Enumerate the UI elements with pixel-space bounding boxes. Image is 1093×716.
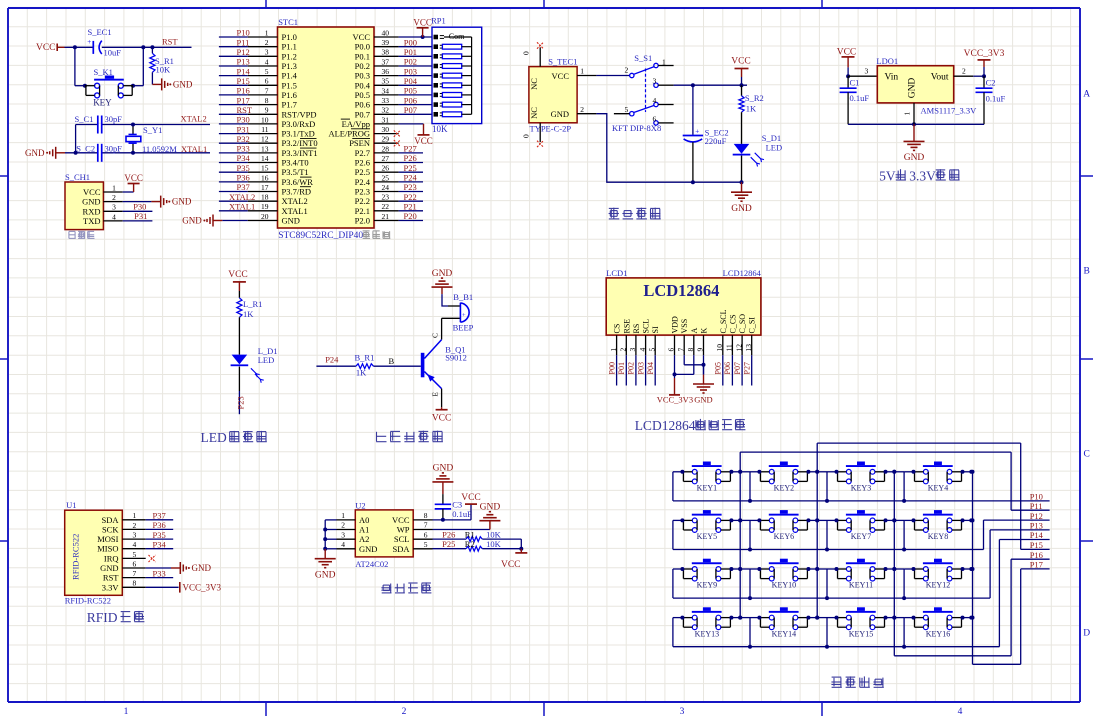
svg-text:S_CH1: S_CH1 <box>65 172 90 182</box>
svg-text:P20: P20 <box>404 211 417 221</box>
svg-text:P30: P30 <box>237 115 250 125</box>
svg-text:LED: LED <box>258 355 275 365</box>
svg-text:32: 32 <box>382 106 390 115</box>
svg-text:P2.3: P2.3 <box>355 187 370 197</box>
svg-text:P16: P16 <box>237 86 250 96</box>
svg-text:30pF: 30pF <box>105 114 123 124</box>
svg-text:6: 6 <box>653 114 657 123</box>
svg-text:P22: P22 <box>404 192 417 202</box>
svg-text:LDO1: LDO1 <box>876 56 898 66</box>
svg-text:10: 10 <box>261 115 269 124</box>
svg-text:P07: P07 <box>404 105 417 115</box>
svg-text:RSE: RSE <box>622 319 631 334</box>
svg-text:KEY5: KEY5 <box>697 532 717 541</box>
svg-text:3: 3 <box>653 76 657 85</box>
svg-text:GND: GND <box>173 80 193 90</box>
svg-text:1: 1 <box>133 511 137 520</box>
svg-text:KEY11: KEY11 <box>849 581 873 590</box>
svg-text:6: 6 <box>265 77 269 86</box>
svg-text:L_R1: L_R1 <box>243 299 262 309</box>
svg-text:P05: P05 <box>714 362 723 374</box>
svg-text:P35: P35 <box>153 530 166 540</box>
svg-text:+: + <box>695 127 699 135</box>
svg-text:C2: C2 <box>986 78 996 88</box>
svg-text:P14: P14 <box>1030 530 1044 540</box>
svg-text:VCC: VCC <box>228 270 248 280</box>
svg-text:3: 3 <box>865 66 869 75</box>
svg-text:STC89C52RC_DIP40: STC89C52RC_DIP40 <box>278 231 363 241</box>
svg-text:28: 28 <box>382 144 390 153</box>
svg-text:13: 13 <box>261 144 269 153</box>
svg-text:P12: P12 <box>1030 511 1043 521</box>
svg-text:P11: P11 <box>237 37 250 47</box>
svg-text:VCC: VCC <box>501 560 521 570</box>
svg-text:1: 1 <box>609 348 618 352</box>
svg-text:VCC: VCC <box>413 18 432 28</box>
svg-text:GND: GND <box>172 197 192 207</box>
svg-text:GND: GND <box>904 153 925 163</box>
svg-text:8: 8 <box>265 96 269 105</box>
svg-text:P2.1: P2.1 <box>355 206 370 216</box>
svg-text:25: 25 <box>382 173 390 182</box>
svg-text:S_R2: S_R2 <box>745 93 764 103</box>
svg-text:36: 36 <box>382 67 390 76</box>
svg-text:P1.1: P1.1 <box>282 42 297 52</box>
svg-text:P33: P33 <box>237 144 250 154</box>
svg-text:VCC: VCC <box>414 136 433 146</box>
svg-text:LED: LED <box>201 430 227 445</box>
svg-text:1K: 1K <box>356 368 367 378</box>
svg-text:0.1uF: 0.1uF <box>850 93 870 103</box>
svg-text:S_S1: S_S1 <box>634 53 652 63</box>
svg-text:30: 30 <box>382 125 390 134</box>
svg-text:P36: P36 <box>153 520 166 530</box>
svg-text:P1.0: P1.0 <box>282 32 297 42</box>
svg-text:C_SI: C_SI <box>748 317 757 334</box>
svg-text:ALE/PROG: ALE/PROG <box>328 129 370 139</box>
svg-text:C_CS: C_CS <box>728 314 737 333</box>
svg-text:RXD: RXD <box>83 206 101 216</box>
svg-text:RST/VPD: RST/VPD <box>282 109 317 119</box>
svg-text:P07: P07 <box>733 362 742 374</box>
svg-text:A: A <box>1083 90 1090 100</box>
svg-text:KEY12: KEY12 <box>926 581 950 590</box>
svg-text:P1.4: P1.4 <box>282 71 298 81</box>
svg-text:RP1: RP1 <box>431 16 446 26</box>
svg-text:GND: GND <box>315 570 336 580</box>
svg-text:P3.6/WR: P3.6/WR <box>282 177 314 187</box>
svg-text:8: 8 <box>686 348 695 352</box>
svg-text:KEY6: KEY6 <box>774 532 794 541</box>
svg-text:KEY3: KEY3 <box>851 484 871 493</box>
svg-text:7: 7 <box>424 521 428 530</box>
svg-text:VCC_3V3: VCC_3V3 <box>964 49 1005 59</box>
svg-text:R2: R2 <box>465 539 475 549</box>
svg-text:1: 1 <box>265 28 269 37</box>
svg-text:LCD1: LCD1 <box>606 268 627 278</box>
svg-text:P17: P17 <box>237 95 250 105</box>
svg-text:P24: P24 <box>404 173 418 183</box>
svg-text:K: K <box>700 328 709 334</box>
svg-text:P0.5: P0.5 <box>355 90 370 100</box>
svg-text:10: 10 <box>715 344 724 352</box>
svg-text:R1: R1 <box>465 529 475 539</box>
svg-text:SDA: SDA <box>101 515 119 525</box>
svg-text:TXD: TXD <box>83 216 100 226</box>
svg-text:0: 0 <box>522 51 531 55</box>
svg-text:3.3V: 3.3V <box>909 168 936 183</box>
svg-text:P03: P03 <box>404 66 417 76</box>
svg-text:XTAL2: XTAL2 <box>181 113 207 123</box>
svg-text:GND: GND <box>25 148 45 158</box>
svg-text:KEY16: KEY16 <box>926 629 950 638</box>
svg-text:P2.4: P2.4 <box>355 177 371 187</box>
svg-text:3: 3 <box>680 707 685 716</box>
svg-text:KEY: KEY <box>93 98 112 108</box>
svg-text:20: 20 <box>261 212 269 221</box>
svg-text:24: 24 <box>382 183 390 192</box>
svg-text:4: 4 <box>958 707 963 716</box>
svg-text:21: 21 <box>382 212 390 221</box>
svg-text:LCD12864: LCD12864 <box>723 268 762 278</box>
svg-text:SI: SI <box>651 326 660 333</box>
svg-text:VCC_3V3: VCC_3V3 <box>183 582 222 592</box>
svg-text:P0.2: P0.2 <box>355 61 370 71</box>
svg-text:5: 5 <box>424 540 428 549</box>
svg-text:RS: RS <box>632 324 641 334</box>
svg-text:P2.0: P2.0 <box>355 216 370 226</box>
svg-text:14: 14 <box>261 154 269 163</box>
svg-text:220uF: 220uF <box>705 136 727 146</box>
svg-text:5: 5 <box>625 105 629 114</box>
svg-text:2: 2 <box>112 193 116 202</box>
svg-text:IRQ: IRQ <box>104 553 119 563</box>
svg-text:1: 1 <box>112 183 116 192</box>
svg-text:34: 34 <box>382 86 390 95</box>
svg-text:STC1: STC1 <box>278 17 298 27</box>
svg-text:15: 15 <box>261 164 269 173</box>
svg-text:6: 6 <box>424 530 428 539</box>
svg-text:30pF: 30pF <box>105 143 123 153</box>
svg-text:A2: A2 <box>359 534 369 544</box>
svg-text:P12: P12 <box>237 47 250 57</box>
svg-text:5: 5 <box>133 550 137 559</box>
svg-text:P13: P13 <box>237 57 250 67</box>
svg-text:2: 2 <box>962 66 966 75</box>
svg-text:P0.7: P0.7 <box>355 109 370 119</box>
svg-text:P01: P01 <box>617 362 626 374</box>
svg-text:P24: P24 <box>325 355 339 365</box>
svg-text:XTAL1: XTAL1 <box>282 206 308 216</box>
svg-text:P0.1: P0.1 <box>355 51 370 61</box>
svg-text:5: 5 <box>265 67 269 76</box>
svg-text:GND: GND <box>182 216 202 226</box>
svg-text:NC: NC <box>529 107 539 119</box>
svg-text:KEY8: KEY8 <box>928 532 948 541</box>
svg-text:P06: P06 <box>404 95 417 105</box>
svg-text:XTAL2: XTAL2 <box>229 192 255 202</box>
svg-text:P06: P06 <box>723 362 732 374</box>
svg-text:GND: GND <box>694 395 712 405</box>
svg-text:0.1uF: 0.1uF <box>986 94 1006 104</box>
svg-text:8: 8 <box>133 579 137 588</box>
svg-text:C_SO: C_SO <box>738 314 747 334</box>
svg-text:3.3V: 3.3V <box>102 582 120 592</box>
svg-text:SCL: SCL <box>642 319 651 334</box>
svg-text:RFID-RC522: RFID-RC522 <box>71 534 81 580</box>
svg-text:P3.1/TxD: P3.1/TxD <box>282 129 315 139</box>
svg-text:2: 2 <box>341 521 345 530</box>
svg-text:10K: 10K <box>432 124 448 134</box>
svg-text:P25: P25 <box>442 539 455 549</box>
svg-text:MISO: MISO <box>97 544 118 554</box>
svg-text:EA/Vpp: EA/Vpp <box>342 119 370 129</box>
svg-text:U2: U2 <box>355 500 365 510</box>
svg-text:P37: P37 <box>237 182 250 192</box>
svg-text:LED: LED <box>766 142 783 152</box>
svg-text:E: E <box>431 392 440 397</box>
svg-text:PSEN: PSEN <box>349 138 370 148</box>
svg-text:P25: P25 <box>404 163 417 173</box>
svg-text:P32: P32 <box>237 134 250 144</box>
svg-text:Vin: Vin <box>885 73 899 83</box>
svg-text:P33: P33 <box>153 568 166 578</box>
svg-text:P1.7: P1.7 <box>282 100 297 110</box>
svg-text:P34: P34 <box>237 153 251 163</box>
svg-text:P00: P00 <box>404 37 417 47</box>
svg-text:3: 3 <box>628 348 637 352</box>
svg-text:S_C2: S_C2 <box>76 143 95 153</box>
svg-text:+: + <box>462 312 466 319</box>
svg-text:P15: P15 <box>237 76 250 86</box>
svg-text:B_B1: B_B1 <box>453 292 473 302</box>
svg-text:B: B <box>1084 267 1090 277</box>
svg-text:10uF: 10uF <box>104 47 122 57</box>
svg-text:GND: GND <box>908 78 918 99</box>
svg-text:VCC: VCC <box>731 57 751 67</box>
svg-text:SCL: SCL <box>394 534 410 544</box>
svg-text:4: 4 <box>653 96 657 105</box>
svg-text:P35: P35 <box>237 163 250 173</box>
svg-text:VDD: VDD <box>671 316 680 334</box>
svg-text:A1: A1 <box>359 525 369 535</box>
svg-text:2: 2 <box>619 348 628 352</box>
svg-text:16: 16 <box>261 173 269 182</box>
svg-text:19: 19 <box>261 202 269 211</box>
svg-text:P17: P17 <box>1030 560 1043 570</box>
svg-text:P16: P16 <box>1030 550 1043 560</box>
svg-text:S_C1: S_C1 <box>75 114 94 124</box>
svg-text:AT24C02: AT24C02 <box>355 559 388 569</box>
svg-text:A: A <box>690 328 699 334</box>
svg-text:P3.3/INT1: P3.3/INT1 <box>282 148 318 158</box>
svg-text:2: 2 <box>625 65 629 74</box>
svg-text:P1.3: P1.3 <box>282 61 297 71</box>
svg-text:GND: GND <box>359 544 377 554</box>
svg-text:SCK: SCK <box>102 524 119 534</box>
svg-text:2: 2 <box>133 521 137 530</box>
svg-text:P14: P14 <box>237 66 251 76</box>
svg-text:1K: 1K <box>746 104 757 114</box>
svg-text:3: 3 <box>265 48 269 57</box>
svg-text:10K: 10K <box>156 64 172 74</box>
svg-text:9: 9 <box>696 348 705 352</box>
svg-text:P02: P02 <box>404 57 417 67</box>
svg-text:VCC: VCC <box>36 43 56 53</box>
svg-text:1K: 1K <box>243 309 254 319</box>
svg-text:P27: P27 <box>404 144 417 154</box>
svg-text:VCC: VCC <box>83 187 101 197</box>
svg-text:5V: 5V <box>879 168 896 183</box>
svg-text:VCC: VCC <box>432 414 452 424</box>
svg-text:VCC_3V3: VCC_3V3 <box>657 395 693 405</box>
svg-text:C1: C1 <box>850 78 860 88</box>
svg-text:P0.4: P0.4 <box>355 80 371 90</box>
svg-text:VSS: VSS <box>680 319 689 334</box>
svg-text:2: 2 <box>580 105 584 114</box>
svg-text:0.1uF: 0.1uF <box>452 509 472 519</box>
svg-text:C: C <box>1084 450 1090 460</box>
svg-text:0: 0 <box>522 134 531 138</box>
svg-text:GND: GND <box>282 216 300 226</box>
svg-text:35: 35 <box>382 77 390 86</box>
svg-text:4: 4 <box>341 540 345 549</box>
svg-text:P3.0/RxD: P3.0/RxD <box>282 119 316 129</box>
svg-text:2: 2 <box>402 707 407 716</box>
svg-text:P11: P11 <box>1030 501 1043 511</box>
svg-text:C_SCL: C_SCL <box>719 309 728 333</box>
svg-text:KEY9: KEY9 <box>697 581 717 590</box>
svg-text:P34: P34 <box>153 539 167 549</box>
svg-text:P0.0: P0.0 <box>355 42 370 52</box>
svg-text:SDA: SDA <box>392 544 410 554</box>
svg-text:3: 3 <box>133 531 137 540</box>
svg-text:38: 38 <box>382 48 390 57</box>
svg-text:GND: GND <box>551 109 569 119</box>
svg-text:7: 7 <box>265 86 269 95</box>
svg-text:P23: P23 <box>404 182 417 192</box>
svg-text:P31: P31 <box>134 211 147 221</box>
svg-text:11: 11 <box>725 344 734 351</box>
svg-text:4: 4 <box>638 348 647 352</box>
svg-text:P3.4/T0: P3.4/T0 <box>282 158 309 168</box>
svg-text:A0: A0 <box>359 515 369 525</box>
svg-text:P21: P21 <box>404 202 417 212</box>
svg-text:U1: U1 <box>66 500 76 510</box>
svg-text:VCC: VCC <box>461 493 481 503</box>
svg-text:P36: P36 <box>237 173 250 183</box>
svg-text:KEY1: KEY1 <box>697 484 717 493</box>
svg-text:CS: CS <box>613 324 622 334</box>
svg-text:Vout: Vout <box>931 73 949 83</box>
svg-text:P05: P05 <box>404 86 417 96</box>
svg-text:KEY7: KEY7 <box>851 532 871 541</box>
svg-text:P03: P03 <box>636 362 645 374</box>
svg-text:S_EC1: S_EC1 <box>88 27 112 37</box>
svg-text:9: 9 <box>265 106 269 115</box>
svg-text:7: 7 <box>133 569 137 578</box>
svg-text:5: 5 <box>647 348 656 352</box>
svg-text:P1.2: P1.2 <box>282 51 297 61</box>
svg-text:23: 23 <box>382 193 390 202</box>
svg-text:VCC: VCC <box>353 32 371 42</box>
svg-text:RST: RST <box>237 105 253 115</box>
svg-text:S_TEC1: S_TEC1 <box>548 57 577 67</box>
svg-text:P0.3: P0.3 <box>355 71 370 81</box>
svg-text:B: B <box>389 356 395 366</box>
svg-text:S_Y1: S_Y1 <box>143 125 162 135</box>
svg-text:33: 33 <box>382 96 390 105</box>
svg-text:XTAL1: XTAL1 <box>229 202 255 212</box>
svg-text:GND: GND <box>82 197 100 207</box>
svg-text:VCC: VCC <box>552 71 570 81</box>
svg-text:Com: Com <box>449 32 465 41</box>
svg-text:39: 39 <box>382 38 390 47</box>
svg-text:XTAL1: XTAL1 <box>181 144 207 154</box>
svg-text:31: 31 <box>382 115 390 124</box>
svg-text:KEY14: KEY14 <box>772 629 796 638</box>
svg-text:RST: RST <box>162 36 178 46</box>
svg-text:GND: GND <box>432 269 453 279</box>
svg-text:P2.2: P2.2 <box>355 196 370 206</box>
svg-text:P3.2/INT0: P3.2/INT0 <box>282 138 318 148</box>
svg-text:4: 4 <box>265 57 269 66</box>
svg-text:18: 18 <box>261 193 269 202</box>
svg-text:2: 2 <box>265 38 269 47</box>
svg-text:P0.6: P0.6 <box>355 100 370 110</box>
svg-text:P26: P26 <box>442 529 455 539</box>
svg-text:11: 11 <box>261 125 268 134</box>
svg-text:VCC: VCC <box>392 515 410 525</box>
svg-text:3: 3 <box>341 530 345 539</box>
svg-text:XTAL2: XTAL2 <box>282 196 308 206</box>
svg-text:P23: P23 <box>235 396 245 409</box>
svg-text:P01: P01 <box>404 47 417 57</box>
svg-text:GND: GND <box>731 204 752 214</box>
svg-text:10K: 10K <box>486 529 502 539</box>
svg-text:GND: GND <box>433 464 454 474</box>
svg-text:TYPE-C-2P: TYPE-C-2P <box>530 124 572 134</box>
svg-text:P31: P31 <box>237 124 250 134</box>
svg-text:1: 1 <box>124 707 129 716</box>
svg-text:12: 12 <box>734 344 743 352</box>
svg-text:+: + <box>87 38 91 46</box>
svg-text:P15: P15 <box>1030 540 1043 550</box>
svg-text:S9012: S9012 <box>445 353 467 363</box>
svg-text:1: 1 <box>341 511 345 520</box>
svg-text:11.0592M: 11.0592M <box>142 144 177 154</box>
svg-text:KEY13: KEY13 <box>695 629 719 638</box>
svg-text:4: 4 <box>133 540 137 549</box>
svg-text:7: 7 <box>676 348 685 352</box>
svg-text:P26: P26 <box>404 153 417 163</box>
svg-text:1: 1 <box>903 112 912 116</box>
svg-text:40: 40 <box>382 28 390 37</box>
svg-text:LCD12864: LCD12864 <box>643 281 719 300</box>
svg-text:KEY2: KEY2 <box>774 484 794 493</box>
svg-text:KEY10: KEY10 <box>772 581 796 590</box>
svg-text:GND: GND <box>100 563 118 573</box>
svg-text:P37: P37 <box>153 511 166 521</box>
svg-text:27: 27 <box>382 154 390 163</box>
svg-text:P3.7/RD: P3.7/RD <box>282 187 312 197</box>
svg-text:P02: P02 <box>627 362 636 374</box>
svg-text:P1.6: P1.6 <box>282 90 297 100</box>
svg-text:10K: 10K <box>486 539 502 549</box>
svg-text:3: 3 <box>112 203 116 212</box>
svg-text:B_R1: B_R1 <box>355 353 375 363</box>
svg-text:P27: P27 <box>743 362 752 374</box>
